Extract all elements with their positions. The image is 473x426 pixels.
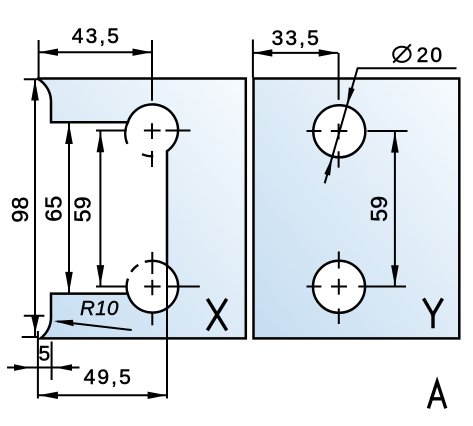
- dimension 5: [7, 342, 80, 381]
- centerlines hole X1: [96, 40, 191, 167]
- dimension 49,5: [38, 266, 167, 399]
- hole X2 hidden dash upper-left: [131, 265, 138, 272]
- svg-text:33,5: 33,5: [272, 27, 321, 50]
- radius label R10 leader: [54, 297, 132, 330]
- svg-text:59: 59: [366, 196, 392, 222]
- dimension 98: [7, 79, 44, 337]
- svg-text:98: 98: [7, 196, 33, 222]
- label X: [208, 300, 226, 329]
- hole Y1 (top, Ø20): [313, 105, 365, 157]
- svg-text:59: 59: [70, 196, 96, 222]
- svg-text:49,5: 49,5: [84, 366, 133, 389]
- dimension Ø20 leader: [324, 44, 456, 184]
- svg-text:20: 20: [417, 44, 445, 67]
- dimension 59 (plate X): [70, 131, 105, 286]
- label Y: [424, 300, 441, 327]
- dimension 43,5: [39, 25, 152, 78]
- hole Y2 (bottom, Ø20): [313, 261, 365, 313]
- centerlines hole Y2: [307, 252, 407, 325]
- svg-text:65: 65: [41, 196, 67, 222]
- label A: [429, 382, 445, 407]
- svg-text:43,5: 43,5: [72, 25, 121, 48]
- centerlines hole Y1: [307, 53, 408, 168]
- hole X1 extra solid arc lower-left: [125, 122, 128, 144]
- hole X2 solid arc top: [145, 261, 167, 266]
- plate X outline: [37, 79, 246, 339]
- plate Y outline: [254, 79, 460, 339]
- centerlines hole X2: [96, 252, 200, 325]
- dimension 59 (plate Y): [366, 132, 399, 287]
- dimension 33,5: [253, 27, 338, 77]
- hole X2 extra solid arc left: [127, 279, 128, 294]
- dimension 65: [41, 123, 73, 293]
- svg-text:R10: R10: [80, 297, 119, 320]
- svg-text:5: 5: [39, 342, 53, 365]
- hole X1 hidden dash bottom: [142, 154, 153, 156]
